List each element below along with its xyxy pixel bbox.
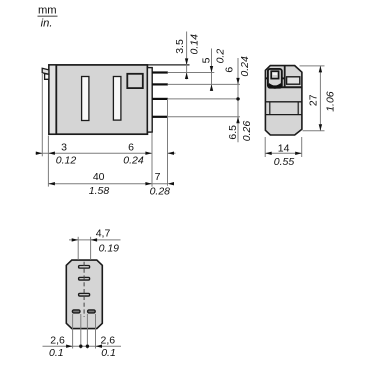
bottom view: top slot 2 (79, 278, 90, 281)
svg-text:0.1: 0.1 (49, 347, 64, 359)
front view: top right slot (287, 77, 300, 84)
extension line: pin 2 (168, 83, 240, 85)
svg-text:0.19: 0.19 (99, 243, 120, 255)
extension line: top slot left (77, 237, 79, 260)
pin 3 (152, 98, 168, 100)
extension line: front top (300, 65, 325, 67)
extension line: lower slot right-left (86, 314, 88, 349)
front view: button inner square (271, 71, 278, 78)
svg-text:2,6: 2,6 (100, 334, 115, 346)
side view: small square window (127, 74, 143, 88)
extension line: pin 3 (168, 98, 240, 100)
extension line: clip left vertical (41, 74, 43, 156)
front view: bottom thick line of top section (281, 86, 302, 88)
bottom view: lower slot left (72, 310, 80, 313)
pin 1 (152, 71, 168, 73)
front view: button left nub (266, 77, 268, 79)
front view: middle band bottom line (265, 114, 302, 116)
bottom view: octagon body (66, 260, 102, 329)
pin 2 (152, 83, 168, 85)
dimension 6/0.24 + 6.5/0.26 chained vertical line (237, 58, 239, 142)
dimension 5/0.2 vertical line (211, 49, 213, 91)
dimension row 3 / 6 horizontal line (36, 152, 152, 154)
svg-text:14: 14 (278, 143, 290, 155)
side view: slot 1 (82, 77, 89, 121)
svg-text:0.55: 0.55 (274, 156, 295, 168)
extension line: top slot right (90, 237, 92, 260)
svg-text:6: 6 (128, 141, 134, 153)
side view: slot 2 (113, 77, 121, 121)
svg-text:1.58: 1.58 (89, 185, 110, 197)
front view: middle band top line (265, 101, 302, 103)
front view: band right tick (297, 102, 299, 115)
svg-text:0.2: 0.2 (215, 49, 227, 64)
svg-text:in.: in. (41, 17, 53, 29)
svg-text:mm: mm (38, 5, 57, 17)
front view: button highlight band (273, 73, 278, 75)
front view: band left tick (269, 102, 271, 115)
extension line: front right vertical (301, 137, 303, 157)
extension line: front bottom right (303, 130, 325, 132)
svg-text:5: 5 (200, 57, 212, 63)
extension line: pin 4 (168, 116, 240, 118)
svg-text:40: 40 (93, 171, 105, 183)
svg-text:7: 7 (155, 171, 161, 183)
bottom view: lower slot right (88, 310, 96, 313)
bottom view: dashed center line (83, 262, 85, 317)
svg-text:0.12: 0.12 (56, 154, 77, 166)
bottom view: top slot 1 (79, 266, 90, 269)
dimension row 40 / 7 horizontal line (48, 183, 167, 185)
extension line: pin tips vertical (167, 99, 169, 186)
svg-text:0.28: 0.28 (150, 185, 171, 197)
extension line: lower slot right-right (95, 314, 97, 349)
extension line: pin 1 (168, 72, 215, 74)
svg-text:0.24: 0.24 (239, 56, 251, 77)
front view: octagon body (265, 66, 302, 135)
svg-text:1.06: 1.06 (325, 91, 337, 112)
front view: top divider vertical (284, 66, 286, 88)
dimension 4,7/0.19 horizontal line (69, 239, 121, 241)
svg-text:4,7: 4,7 (96, 228, 111, 240)
side view: left strip lighter area (50, 66, 56, 134)
bottom view: top slot 3 (79, 294, 90, 297)
svg-text:3: 3 (61, 141, 67, 153)
side view: relay body (49, 65, 147, 134)
extension line: lower slot left-left (72, 314, 74, 349)
extension line: lower slot left-right (80, 314, 82, 349)
dimension 2,6/2,6 horizontal line (43, 345, 122, 347)
dimension 3.5/0.14 vertical line (186, 32, 188, 80)
dimension 27/1.06 vertical line (319, 66, 321, 131)
svg-text:6.5: 6.5 (227, 125, 239, 140)
front view: button right nub (282, 77, 284, 79)
extension line: body top edge (147, 64, 189, 66)
svg-text:0.26: 0.26 (241, 121, 253, 142)
extension line: body left vertical (47, 136, 49, 187)
svg-text:0.24: 0.24 (123, 154, 144, 166)
side view: clip tab (42, 68, 49, 74)
svg-text:2,6: 2,6 (50, 334, 65, 346)
legend mm/in (38, 5, 58, 30)
extension line: strip right vertical (151, 133, 153, 187)
side view: clip notch (45, 74, 49, 80)
front view: button bottom shadow arc (268, 84, 281, 87)
svg-text:0.1: 0.1 (101, 347, 116, 359)
svg-text:0.14: 0.14 (189, 34, 201, 55)
pin 4 (152, 116, 168, 118)
side view: right strip (147, 68, 152, 133)
svg-text:6: 6 (224, 67, 236, 73)
side view: left strip divider line (55, 65, 57, 134)
svg-text:27: 27 (308, 94, 320, 106)
front view: button outline (268, 69, 282, 88)
svg-text:3.5: 3.5 (174, 39, 186, 54)
dimension 14/0.55 horizontal line (265, 152, 302, 154)
extension line: front left vertical (264, 137, 266, 157)
